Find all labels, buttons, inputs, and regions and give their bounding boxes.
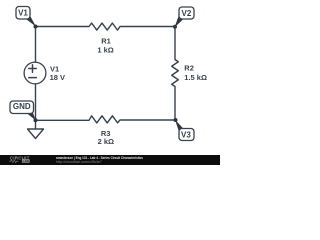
svg-text:18 V: 18 V <box>50 73 65 82</box>
svg-text:R2: R2 <box>184 63 194 72</box>
svg-text:V2: V2 <box>182 9 192 18</box>
svg-text:R1: R1 <box>101 37 111 46</box>
svg-text:2 kΩ: 2 kΩ <box>98 137 114 146</box>
svg-text:http://circuitlab.com/c/9k4e7: http://circuitlab.com/c/9k4e7 <box>56 160 102 164</box>
svg-text:GND: GND <box>13 102 31 111</box>
svg-text:1.5 kΩ: 1.5 kΩ <box>184 73 207 82</box>
svg-text:LAB: LAB <box>23 159 30 163</box>
svg-text:V3: V3 <box>181 131 191 140</box>
svg-text:1 kΩ: 1 kΩ <box>97 45 113 54</box>
svg-text:V1: V1 <box>18 8 28 17</box>
